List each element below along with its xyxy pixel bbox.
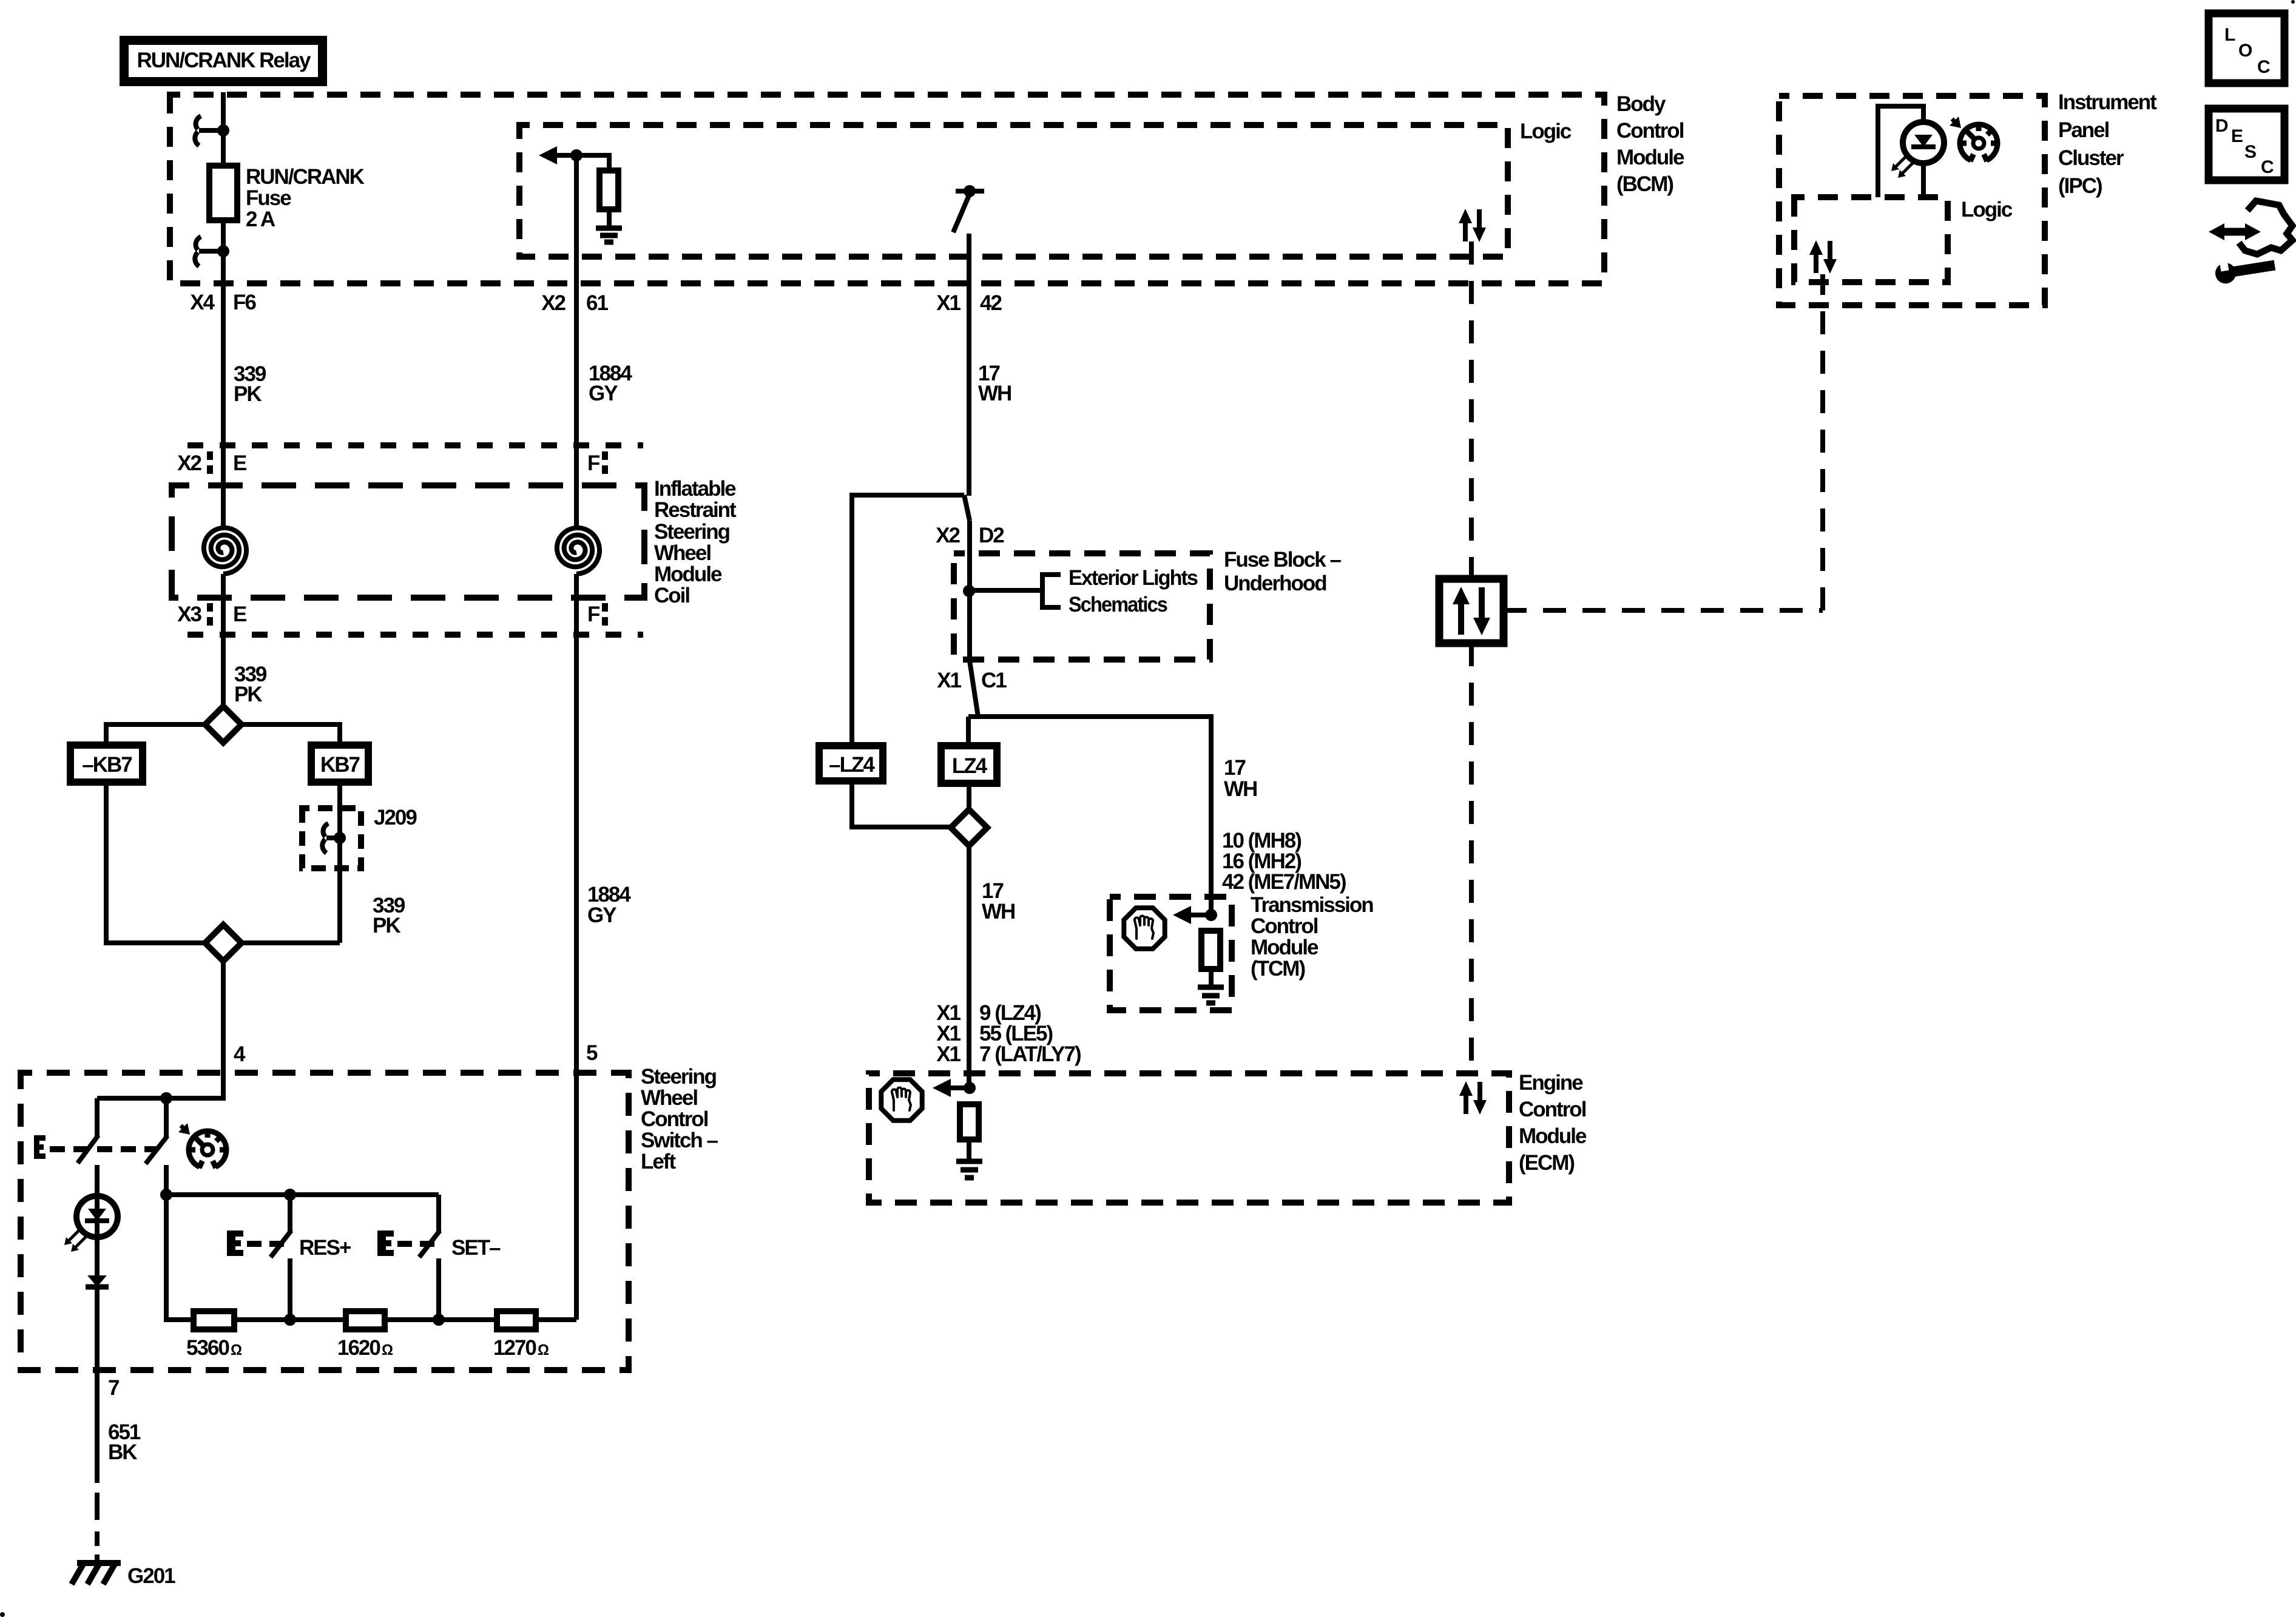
switch E dashed link (left) [50, 1146, 157, 1152]
TCM arrow to node [1173, 906, 1211, 924]
svg-text:Switch –: Switch – [641, 1129, 718, 1152]
wire resistor to ground [607, 209, 612, 227]
SET- switch stub (from rail corner) [436, 1195, 441, 1232]
svg-text:C: C [2261, 157, 2274, 177]
node SET- bottom [433, 1314, 445, 1326]
svg-text:WH: WH [978, 382, 1011, 405]
svg-text:Module: Module [1616, 146, 1684, 169]
dashed wire to G201 [95, 1493, 100, 1563]
title box RUN/CRANK Relay [120, 36, 327, 86]
wire from relay title into BCM [221, 92, 226, 166]
Body Control Module (BCM) dashed box [170, 95, 1604, 283]
node RES+ top [284, 1189, 296, 1201]
svg-text:–LZ4: –LZ4 [829, 753, 875, 777]
svg-text:Restraint: Restraint [654, 498, 737, 522]
IPC serial data arrows up/down [1809, 240, 1837, 274]
node J209 [334, 832, 346, 844]
wire to switch pin 4 [221, 961, 226, 1101]
svg-text:–KB7: –KB7 [82, 753, 132, 777]
svg-text:X1: X1 [936, 291, 961, 315]
signal ground in ECM [956, 1161, 982, 1178]
net -KB7 box [70, 745, 143, 782]
wire diamond to -KB7 [106, 724, 205, 745]
node at BCM switch [964, 185, 976, 197]
svg-text:Instrument: Instrument [2058, 90, 2157, 114]
label Instrument Panel Cluster (IPC) [2058, 90, 2157, 198]
svg-text:X1: X1 [936, 1042, 961, 1066]
wire pin 4 into switch [97, 1096, 223, 1101]
junction node at fuse bottom [217, 245, 229, 257]
svg-text:7 (LAT/LY7): 7 (LAT/LY7) [979, 1042, 1081, 1066]
svg-text:D: D [2215, 116, 2229, 136]
pin label X2 | D2 [936, 524, 1004, 547]
pin label X2 | 61 [541, 291, 608, 315]
bottom rail segment 5360 to 1620 [234, 1317, 346, 1322]
ECM arrow to node [933, 1079, 970, 1097]
svg-text:L: L [2224, 25, 2235, 45]
node RES+ bottom [284, 1314, 296, 1326]
label Body Control Module (BCM) [1616, 92, 1684, 196]
pin labels 10 (MH8) 16 (MH2) 42 (ME7/MN5) [1222, 829, 1346, 894]
TCM resistor [1201, 931, 1220, 969]
svg-text:WH: WH [1224, 777, 1257, 801]
svg-text:LZ4: LZ4 [952, 754, 988, 778]
svg-text:C: C [2257, 57, 2271, 77]
branch wire 17 WH to TCM [968, 717, 1211, 915]
branch wire to -LZ4 [852, 495, 964, 746]
connector repair icon (arrow, connector, wrench) [2209, 201, 2292, 285]
splice diamond (lower) [205, 925, 241, 961]
svg-text:SET–: SET– [451, 1236, 501, 1260]
wire to pull-up resistor [607, 153, 612, 170]
RES+ switch stub [288, 1195, 292, 1232]
wire LZ4 to diamond [967, 783, 971, 809]
pin label X1 | 42 [936, 291, 1002, 315]
svg-text:KB7: KB7 [320, 753, 360, 777]
resistor in BCM logic [599, 170, 618, 209]
svg-text:J209: J209 [374, 806, 417, 829]
svg-text:(TCM): (TCM) [1251, 957, 1305, 981]
svg-text:GY: GY [589, 382, 618, 405]
signal ground in BCM logic [596, 228, 622, 242]
Instrument Panel Cluster (IPC) dashed box [1779, 96, 2045, 305]
wire -LZ4 to lower diamond [852, 781, 951, 827]
svg-text:Module: Module [1519, 1124, 1587, 1148]
svg-text:42 (ME7/MN5): 42 (ME7/MN5) [1222, 870, 1346, 894]
junction node at fuse top [217, 124, 229, 137]
svg-text:Control: Control [1519, 1098, 1586, 1121]
bottom rail segment 1620 to 1270 [385, 1317, 497, 1322]
svg-text:Logic: Logic [1520, 120, 1572, 143]
wire label 1884 GY (top) [589, 362, 632, 405]
svg-text:Logic: Logic [1961, 198, 2013, 221]
node rail left [160, 1189, 172, 1201]
wire diamond to ECM [967, 846, 971, 1088]
svg-text:Control: Control [1616, 119, 1684, 143]
svg-text:X2: X2 [936, 524, 960, 547]
svg-text:Fuse Block –: Fuse Block – [1224, 548, 1341, 572]
svg-text:G201: G201 [127, 1564, 175, 1588]
wire label 651 BK [108, 1420, 141, 1464]
svg-text:Schematics: Schematics [1069, 593, 1167, 616]
svg-text:Exterior Lights: Exterior Lights [1069, 566, 1198, 590]
relay contact clip (bottom) [195, 237, 223, 266]
svg-text:(ECM): (ECM) [1519, 1151, 1574, 1175]
svg-text:5: 5 [586, 1041, 598, 1065]
signal ground in TCM [1198, 987, 1224, 1003]
wire ECM resistor to ground [967, 1139, 971, 1160]
svg-text:F: F [587, 451, 600, 475]
wire 339 PK through coil (left) [221, 527, 226, 528]
wire label 17 WH (top) [978, 362, 1011, 405]
svg-text:Engine: Engine [1519, 1071, 1583, 1095]
wire label 339 PK (below J209) [373, 894, 405, 937]
wire diamond to KB7 [241, 724, 340, 745]
svg-text:X3: X3 [177, 603, 201, 626]
svg-text:X2: X2 [177, 451, 201, 475]
on/off switch blade (left) [78, 1135, 98, 1163]
ECM resistor [960, 1104, 979, 1139]
connector band X3 (coil bottom) [187, 603, 643, 635]
label Transmission Control Module (TCM) [1251, 893, 1373, 981]
SET- switch blade [419, 1230, 440, 1257]
RES+ switch blade [271, 1230, 291, 1257]
diode [86, 1275, 109, 1287]
coil module dashed box [172, 485, 644, 598]
svg-text:Coil: Coil [654, 584, 689, 607]
wire -KB7 down to lower diamond [106, 782, 205, 943]
BCM internal switch (cruise request) [953, 191, 984, 232]
svg-text:WH: WH [982, 900, 1015, 923]
svg-text:RES+: RES+ [299, 1236, 351, 1260]
label RUN/CRANK Fuse 2 A [246, 165, 365, 231]
wire switch to LED [95, 1165, 100, 1275]
SET- E symbol [377, 1230, 394, 1256]
connector labels X3 E F [177, 603, 600, 626]
wire label 339 PK (below coil) [234, 663, 267, 706]
net -LZ4 box [819, 746, 883, 781]
serial data dashed line data box to IPC [1504, 608, 1823, 613]
wire node to schematics bracket [969, 588, 1042, 593]
svg-text:Body: Body [1616, 92, 1666, 116]
svg-text:PK: PK [234, 683, 262, 706]
RES+ E symbol [227, 1230, 243, 1256]
svg-text:D2: D2 [979, 524, 1004, 547]
wire KB7 leg to lower diamond [241, 940, 340, 945]
svg-text:42: 42 [980, 291, 1002, 315]
serial data dashed line data box to ECM [1469, 643, 1474, 1075]
ground G201 [72, 1563, 121, 1584]
BCM serial data arrows up/down [1459, 209, 1486, 242]
label Steering Wheel Control Switch - Left [641, 1065, 718, 1173]
label Exterior Lights Schematics [1069, 566, 1198, 616]
svg-text:RUN/CRANK: RUN/CRANK [246, 165, 365, 189]
serial data box with arrows [1439, 579, 1504, 643]
ECM stop-hand octagon [881, 1079, 922, 1120]
net LZ4 box [941, 746, 997, 783]
wire TCM resistor to ground [1209, 969, 1214, 986]
slant into fuse block connector D2 [964, 495, 970, 521]
svg-text:2 A: 2 A [246, 208, 275, 231]
node in TCM [1205, 909, 1217, 921]
Transmission Control Module (TCM) dashed box [1110, 897, 1232, 1010]
wire KB7 down through J209 [337, 782, 342, 943]
svg-text:PK: PK [234, 382, 262, 406]
svg-text:Steering: Steering [654, 520, 730, 544]
svg-text:Underhood: Underhood [1224, 572, 1326, 595]
svg-text:GY: GY [587, 903, 616, 927]
wire through fuse block [967, 521, 972, 661]
Engine Control Module (ECM) dashed box [869, 1073, 1509, 1203]
IPC Logic dashed box [1794, 197, 1948, 282]
svg-text:17: 17 [1224, 756, 1245, 780]
node at switch feed [160, 1092, 172, 1104]
SET- contact to bottom rail [436, 1258, 441, 1320]
pin label X1 | C1 [937, 669, 1007, 692]
cruise switch stub (right) [164, 1098, 169, 1137]
IPC speedometer gauge icon [1950, 116, 1999, 161]
SET- E dashed link [397, 1241, 436, 1247]
svg-text:Module: Module [1251, 936, 1319, 959]
svg-text:F: F [587, 603, 600, 626]
Steering Wheel Control Switch - Left dashed box [21, 1073, 629, 1370]
TCM stop-hand octagon [1124, 908, 1164, 948]
pin labels X1 9 (LZ4) / X1 55 (LE5) / X1 7 (LAT/LY7) [936, 1001, 1081, 1066]
svg-text:Left: Left [641, 1150, 677, 1173]
svg-text:Fuse: Fuse [246, 186, 291, 210]
node in ECM [964, 1082, 976, 1094]
svg-text:Panel: Panel [2058, 118, 2109, 142]
svg-text:Control: Control [1251, 914, 1318, 938]
svg-text:BK: BK [108, 1440, 137, 1464]
svg-text:Cluster: Cluster [2058, 146, 2124, 170]
wire label 17 WH (TCM branch) [1224, 756, 1257, 801]
svg-text:4: 4 [234, 1042, 246, 1066]
wire 1884 GY through coil (right) [574, 574, 579, 1320]
fuse RUN/CRANK Fuse 2 A [209, 166, 237, 220]
cruise switch contact to rail [164, 1165, 169, 1195]
svg-text:O: O [2238, 41, 2252, 61]
node in fuse block [963, 585, 975, 597]
BCM logic output arrow (left) [539, 146, 609, 164]
resistor 5360 ohm [194, 1311, 234, 1329]
bracket Exterior Lights Schematics [1042, 575, 1061, 607]
svg-text:S: S [2244, 142, 2257, 162]
slant out of fuse block connector C1 [970, 661, 978, 717]
svg-text:PK: PK [373, 914, 400, 937]
IPC indicator branch wires [1878, 106, 1923, 197]
svg-text:F6: F6 [233, 291, 256, 314]
wire BCM switch to X1 42 [967, 234, 971, 496]
svg-text:(BCM): (BCM) [1616, 172, 1673, 196]
svg-text:E: E [233, 603, 246, 626]
svg-text:X4: X4 [190, 291, 215, 314]
net KB7 box [311, 745, 368, 782]
svg-text:Inflatable: Inflatable [654, 477, 736, 501]
RES+ E dashed link [247, 1241, 285, 1247]
wire label 339 PK (top) [234, 362, 266, 406]
cruise gauge icon [178, 1123, 228, 1168]
splice clip J209 [322, 823, 340, 853]
IPC indicator LED [1891, 122, 1944, 178]
svg-text:7: 7 [108, 1376, 119, 1400]
wire label 17 WH (to ECM) [982, 879, 1015, 923]
serial data dashed line up to IPC logic [1820, 274, 1825, 610]
node in BCM logic [570, 149, 582, 161]
svg-text:RUN/CRANK Relay: RUN/CRANK Relay [137, 49, 311, 72]
coil spiral (left) [204, 528, 246, 574]
svg-text:C1: C1 [981, 669, 1007, 692]
cruise switch blade (right) [146, 1136, 167, 1164]
svg-text:(IPC): (IPC) [2058, 174, 2102, 198]
relay contact clip (top) [195, 116, 223, 146]
splice J209 dashed box [302, 808, 361, 868]
DESC reference box [2209, 109, 2284, 180]
LED indicator [64, 1196, 118, 1252]
connector band X2 (coil top) [187, 445, 643, 479]
on/off switch stub (left) [95, 1098, 100, 1136]
label Inflatable Restraint Steering Wheel Module Coil [654, 477, 737, 607]
wire diode to pin 7 [95, 1287, 100, 1483]
label Engine Control Module (ECM) [1519, 1071, 1587, 1175]
LOC reference box [2209, 13, 2284, 83]
svg-text:E: E [2231, 126, 2243, 146]
wire X2 61 down to coil [574, 155, 579, 528]
switch E symbol (left) [34, 1135, 46, 1159]
wire C1 to LZ4 [966, 717, 971, 746]
stray mark bottom-left [0, 1612, 5, 1617]
svg-text:Wheel: Wheel [654, 541, 711, 565]
Fuse Block - Underhood dashed box [954, 553, 1210, 660]
bottom rail to 1884 GY leg [536, 1317, 576, 1322]
svg-text:Transmission: Transmission [1251, 893, 1373, 917]
wire fuse bottom [221, 220, 226, 527]
svg-text:Wheel: Wheel [641, 1086, 697, 1110]
svg-text:61: 61 [586, 291, 608, 315]
pin label X4 | F6 [190, 291, 256, 314]
svg-text:X1: X1 [937, 669, 961, 692]
connector labels X2 E F [177, 451, 600, 475]
label Fuse Block - Underhood [1224, 548, 1341, 595]
coil spiral (right) [557, 528, 599, 574]
BCM Logic dashed box [519, 125, 1508, 257]
serial data dashed line BCM to data box [1469, 241, 1474, 579]
stray mark top-right [2291, 0, 2295, 4]
left leg down to 5360 [166, 1195, 194, 1320]
RES+ contact to bottom rail [288, 1258, 292, 1320]
resistor 1620 ohm [346, 1311, 385, 1329]
top rail of resistor network [166, 1192, 439, 1197]
splice diamond (LZ4) [951, 809, 987, 846]
ECM serial data arrows up/down [1459, 1081, 1487, 1115]
svg-text:Module: Module [654, 562, 722, 586]
resistor 1270 ohm [497, 1311, 536, 1329]
svg-text:Steering: Steering [641, 1065, 717, 1089]
splice diamond (upper) [205, 706, 241, 743]
svg-text:E: E [233, 451, 246, 475]
svg-text:X2: X2 [541, 291, 566, 315]
svg-text:Control: Control [641, 1107, 708, 1131]
wire label 1884 GY (lower) [587, 883, 631, 927]
